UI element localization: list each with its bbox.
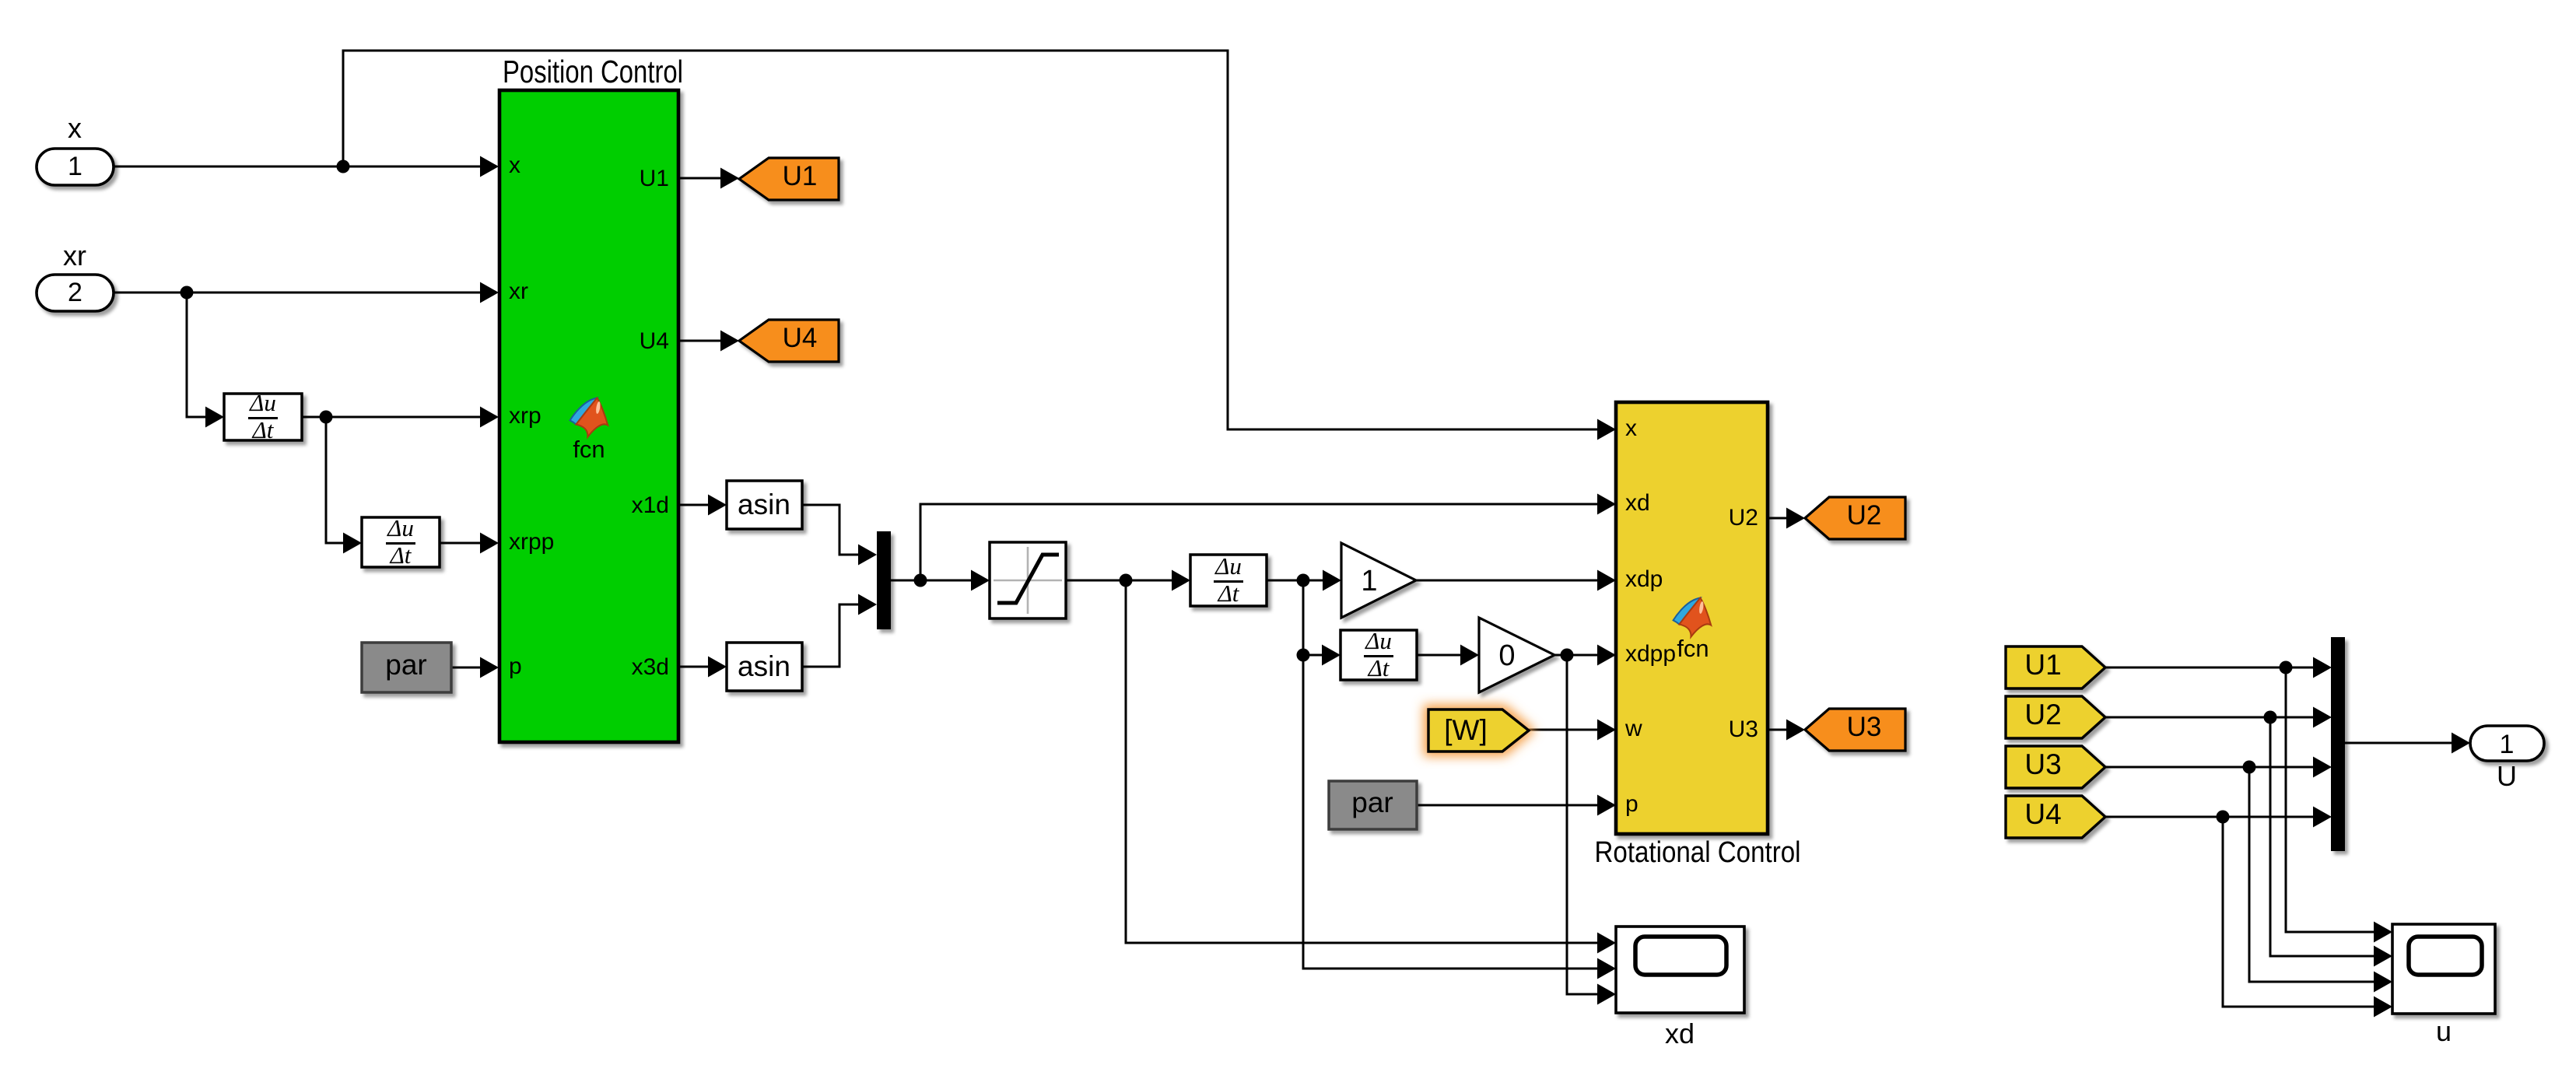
- scope xd: [1616, 927, 1744, 1013]
- svg-text:xdp: xdp: [1625, 566, 1663, 592]
- subsystem Position Control (green MATLAB Function block): [499, 90, 678, 742]
- from tag U4: [2006, 796, 2105, 838]
- scope u: [2392, 924, 2495, 1014]
- svg-text:U1: U1: [2024, 649, 2061, 681]
- mux 1: [877, 531, 891, 629]
- inport 1 (x): [37, 149, 114, 185]
- gain block 0: [1479, 618, 1554, 692]
- svg-text:u: u: [2436, 1015, 2452, 1047]
- wire from tag W to w input: [1529, 729, 1601, 731]
- from tag U1: [2006, 646, 2105, 688]
- wire x1d output to asin1: [678, 504, 712, 506]
- wire par2 to p input of Rotational Control: [1417, 804, 1601, 807]
- from tag W (highlighted): [1427, 708, 1530, 753]
- asin block 1: [727, 481, 802, 529]
- svg-text:U4: U4: [2024, 798, 2061, 830]
- from tag U2: [2006, 696, 2105, 738]
- svg-text:Δu: Δu: [1214, 552, 1242, 580]
- goto tag U1: [739, 158, 839, 200]
- wire mux2 output to outport U: [2345, 742, 2455, 744]
- junction on U4 wire: [2217, 811, 2230, 824]
- svg-text:xd: xd: [1625, 490, 1650, 516]
- junction on U2 wire: [2264, 711, 2277, 724]
- wire branch derivative3 to scope xd port2: [1303, 580, 1601, 969]
- wire saturation to derivative 3: [1066, 580, 1176, 582]
- svg-text:fcn: fcn: [573, 436, 605, 463]
- svg-text:U3: U3: [1847, 712, 1882, 742]
- wire gain1 to xdp input: [1416, 580, 1601, 582]
- svg-text:xr: xr: [509, 279, 528, 304]
- svg-text:U2: U2: [2024, 699, 2061, 730]
- svg-text:par: par: [385, 649, 426, 681]
- gain block 1: [1341, 543, 1416, 618]
- svg-text:Δu: Δu: [386, 514, 414, 541]
- wire asin1 to mux1 port1: [802, 505, 862, 555]
- wire branch U1 to scope u port1: [2286, 667, 2378, 932]
- wire U2 output to goto U2: [1768, 517, 1790, 520]
- svg-text:x3d: x3d: [632, 654, 669, 680]
- wire branch gain0 to scope xd port3: [1567, 655, 1601, 994]
- wire branch xr to derivative 1: [187, 293, 210, 417]
- svg-text:xrp: xrp: [509, 403, 541, 429]
- wire U3 output to goto U3: [1768, 729, 1790, 731]
- wire from tag U3 to mux2 port3: [2105, 766, 2317, 769]
- svg-text:Δu: Δu: [1364, 627, 1392, 654]
- svg-text:U2: U2: [1847, 500, 1882, 531]
- wire branch from x to Rotational Control x input: [343, 51, 1601, 429]
- inport 2 (xr): [37, 275, 114, 311]
- matlab fcn logo in Rotational Control: [1674, 598, 1712, 637]
- svg-text:x: x: [1625, 415, 1637, 441]
- wire par1 to p input: [451, 667, 484, 669]
- svg-text:0: 0: [1498, 639, 1515, 672]
- svg-text:Δt: Δt: [1367, 654, 1390, 681]
- svg-text:fcn: fcn: [1677, 635, 1709, 662]
- svg-text:Δt: Δt: [389, 541, 412, 569]
- svg-text:par: par: [1351, 786, 1393, 818]
- wire inport1 to Position Control x input: [113, 166, 484, 168]
- wire derivative1 to xrp input: [302, 416, 484, 419]
- junction after gain0: [1561, 649, 1574, 662]
- wire gain0 to xdpp input: [1554, 654, 1601, 657]
- wire branch to derivative 2: [326, 417, 348, 543]
- svg-text:U3: U3: [1729, 716, 1758, 742]
- svg-text:asin: asin: [738, 650, 790, 682]
- wire U4 output to goto U4: [678, 340, 724, 342]
- svg-text:Rotational Control: Rotational Control: [1595, 836, 1801, 869]
- wire branch U4 to scope u port4: [2223, 817, 2378, 1007]
- svg-text:p: p: [1625, 791, 1638, 817]
- derivative block 1 (Du/Dt): [224, 389, 302, 443]
- svg-text:U4: U4: [640, 328, 669, 354]
- asin block 2: [727, 643, 802, 691]
- svg-text:x: x: [509, 152, 520, 178]
- svg-text:x1d: x1d: [632, 492, 669, 518]
- constant block par2: [1329, 781, 1417, 829]
- junction after mux1: [914, 574, 927, 587]
- goto tag U4: [739, 320, 839, 362]
- svg-text:U4: U4: [783, 323, 818, 353]
- svg-text:xr: xr: [63, 240, 86, 272]
- outport 1 (U): [2470, 726, 2544, 761]
- wire from tag U2 to mux2 port2: [2105, 716, 2317, 719]
- wire mux1 output to saturation: [891, 580, 975, 582]
- svg-text:p: p: [509, 653, 522, 679]
- wire branch saturation to scope xd port1: [1126, 580, 1601, 943]
- svg-text:xdpp: xdpp: [1625, 641, 1676, 667]
- derivative block 4 (Du/Dt): [1341, 627, 1417, 681]
- mux 2: [2331, 637, 2345, 851]
- goto tag U3: [1805, 709, 1905, 751]
- junction on branch to derivative 4: [1297, 649, 1310, 662]
- svg-text:U2: U2: [1729, 505, 1758, 531]
- derivative block 3 (Du/Dt): [1190, 552, 1267, 607]
- svg-text:U3: U3: [2024, 748, 2061, 780]
- svg-text:x: x: [68, 112, 82, 144]
- wire derivative2 to xrpp input: [440, 542, 484, 545]
- subsystem Rotational Control (yellow MATLAB Function block): [1616, 402, 1768, 834]
- svg-text:1: 1: [2500, 730, 2515, 759]
- constant block par1: [362, 643, 451, 692]
- junction on U3 wire: [2243, 761, 2256, 774]
- svg-text:U1: U1: [640, 166, 669, 191]
- wire branch mux1 to Rotational Control xd input: [920, 504, 1601, 580]
- wire branch U2 to scope u port2: [2270, 717, 2378, 956]
- wire derivative3 to gain 1: [1267, 580, 1327, 582]
- goto tag U2: [1805, 497, 1905, 539]
- derivative block 2 (Du/Dt): [362, 514, 440, 569]
- wire from tag U4 to mux2 port4: [2105, 816, 2317, 818]
- svg-text:U1: U1: [783, 161, 818, 191]
- wire derivative4 to gain 0: [1417, 654, 1464, 657]
- svg-text:w: w: [1624, 716, 1642, 741]
- junction on x wire: [337, 160, 350, 173]
- svg-text:1: 1: [1361, 565, 1377, 597]
- junction on xr wire: [180, 286, 194, 300]
- svg-text:2: 2: [68, 278, 82, 307]
- wire asin2 to mux1 port2: [802, 604, 862, 667]
- svg-text:Δt: Δt: [251, 416, 275, 443]
- junction after saturation: [1120, 574, 1133, 587]
- matlab fcn logo in Position Control: [570, 398, 608, 437]
- from tag U3: [2006, 746, 2105, 788]
- wire inport2 to Position Control xr input: [113, 292, 484, 294]
- wire x3d output to asin2: [678, 666, 712, 668]
- wire from tag U1 to mux2 port1: [2105, 667, 2317, 669]
- wire U1 output to goto U1: [678, 177, 724, 180]
- svg-text:1: 1: [68, 152, 82, 181]
- svg-text:asin: asin: [738, 489, 790, 520]
- junction after derivative1: [320, 411, 333, 424]
- svg-text:U: U: [2497, 760, 2517, 792]
- wire branch to derivative 4: [1303, 654, 1326, 657]
- svg-text:xd: xd: [1665, 1018, 1695, 1049]
- svg-text:Δu: Δu: [248, 389, 276, 416]
- wire branch U3 to scope u port3: [2249, 767, 2378, 982]
- svg-text:Δt: Δt: [1217, 580, 1240, 607]
- junction after derivative3: [1297, 574, 1310, 587]
- junction on U1 wire: [2280, 661, 2293, 674]
- svg-text:xrpp: xrpp: [509, 529, 554, 555]
- svg-text:[W]: [W]: [1444, 714, 1487, 746]
- svg-text:Position Control: Position Control: [503, 54, 683, 89]
- saturation block: [990, 542, 1066, 618]
